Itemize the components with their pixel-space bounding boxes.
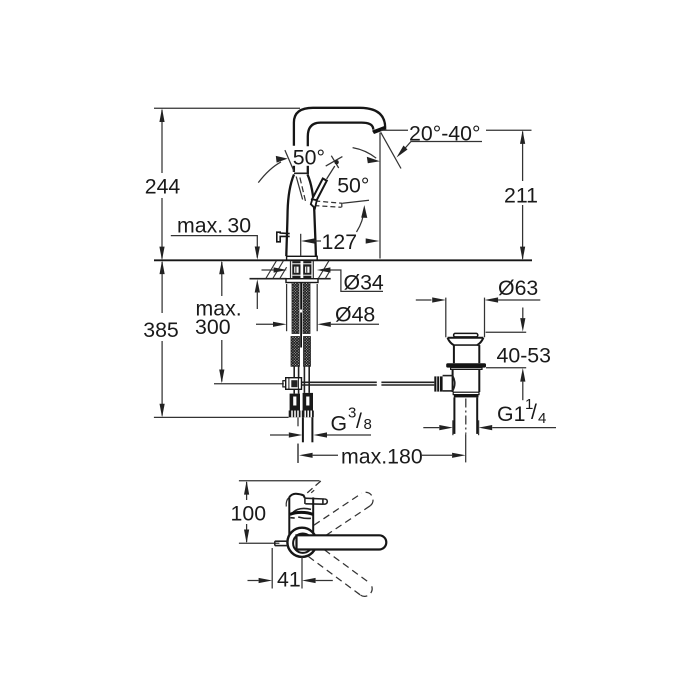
svg-text:Ø48: Ø48 <box>335 303 375 327</box>
svg-text:127: 127 <box>322 230 358 254</box>
svg-text:4: 4 <box>538 410 546 427</box>
svg-text:Ø63: Ø63 <box>498 276 538 300</box>
svg-text:40-53: 40-53 <box>497 344 551 368</box>
svg-text:G1: G1 <box>497 402 525 426</box>
svg-text:max.180: max.180 <box>341 445 423 469</box>
svg-text:41: 41 <box>277 568 301 592</box>
svg-text:100: 100 <box>231 502 267 526</box>
svg-text:max. 30: max. 30 <box>177 213 251 237</box>
svg-text:385: 385 <box>143 318 179 342</box>
svg-text:/: / <box>356 409 362 433</box>
svg-text:G: G <box>331 412 348 436</box>
svg-text:211: 211 <box>504 183 538 207</box>
svg-text:50°: 50° <box>293 146 325 170</box>
svg-text:Ø34: Ø34 <box>344 271 384 295</box>
svg-text:8: 8 <box>364 416 372 433</box>
svg-text:/: / <box>531 400 537 424</box>
svg-text:300: 300 <box>195 315 231 339</box>
svg-text:244: 244 <box>145 175 181 199</box>
svg-text:50°: 50° <box>337 173 369 197</box>
